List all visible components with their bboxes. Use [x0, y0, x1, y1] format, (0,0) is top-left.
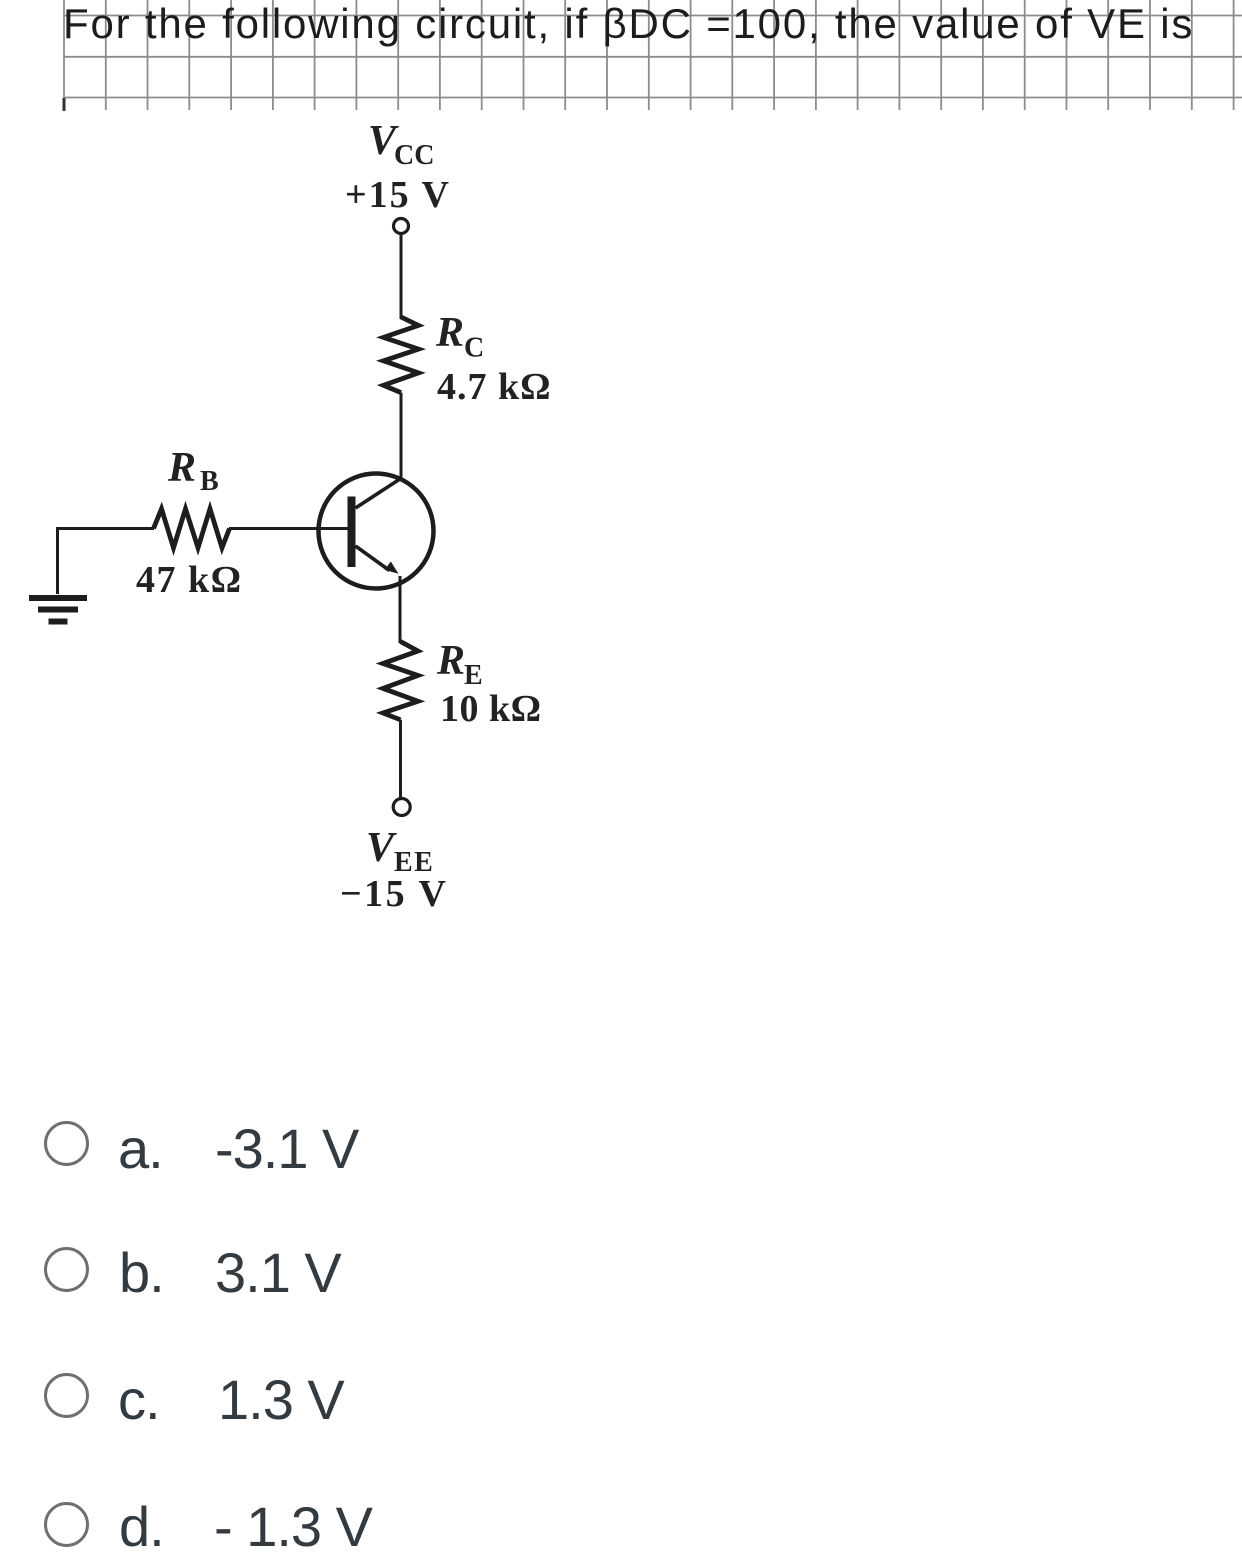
spreadsheet grid header with question text	[0, 0, 1242, 120]
svg-text:−15 V: −15 V	[340, 873, 448, 915]
option a value	[215, 1116, 358, 1181]
option b label	[119, 1240, 164, 1305]
wire VCC to RC	[400, 234, 403, 320]
option d value	[214, 1494, 372, 1559]
resistor RE	[383, 642, 418, 720]
svg-text:R: R	[436, 638, 465, 684]
resistor RC	[384, 317, 419, 393]
svg-text:V: V	[366, 825, 397, 871]
ground	[29, 598, 87, 622]
label VCC	[368, 118, 434, 171]
option d label	[119, 1494, 164, 1559]
option c label	[118, 1367, 160, 1432]
option a label	[118, 1116, 163, 1181]
wire RE to VEE	[399, 720, 402, 798]
label VEE	[366, 825, 434, 878]
svg-text:E: E	[464, 660, 483, 691]
transistor Q1	[319, 474, 434, 589]
label RC	[435, 310, 484, 364]
option a radio	[44, 1121, 89, 1166]
wire RB to ground	[56, 527, 59, 594]
power terminal VCC	[394, 219, 409, 234]
svg-text:+15 V: +15 V	[345, 174, 451, 216]
option b radio	[44, 1247, 89, 1292]
svg-text:B: B	[200, 466, 219, 497]
svg-text:47 kΩ: 47 kΩ	[136, 559, 243, 601]
wire RC to collector	[400, 393, 403, 479]
wire RB to base	[229, 527, 348, 530]
svg-text:C: C	[464, 333, 484, 364]
svg-text:10 kΩ: 10 kΩ	[440, 688, 542, 730]
svg-text:R: R	[435, 310, 464, 356]
wire ground corner to RB	[56, 527, 154, 530]
wire emitter to RE	[399, 576, 402, 643]
resistor RB	[154, 509, 230, 548]
svg-text:4.7 kΩ: 4.7 kΩ	[437, 366, 552, 408]
option b value	[215, 1240, 341, 1305]
svg-text:R: R	[167, 445, 196, 491]
circuit schematic	[0, 0, 620, 960]
svg-text:CC: CC	[394, 140, 434, 171]
option c radio	[44, 1373, 89, 1418]
option c value	[218, 1367, 344, 1432]
option d radio	[44, 1502, 89, 1547]
power terminal VEE	[393, 799, 410, 816]
cursor tick	[63, 98, 66, 111]
label RB	[167, 445, 219, 497]
label RE	[436, 638, 483, 691]
